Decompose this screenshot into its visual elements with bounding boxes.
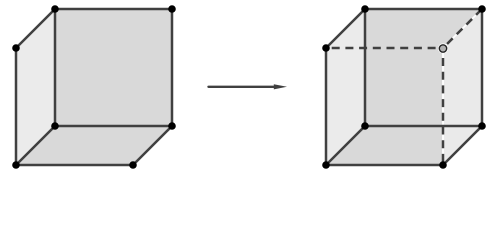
- left cube: edge B-F (front-right vertical): [171, 9, 174, 126]
- right cube: hidden edge H-B (dashed): [443, 9, 482, 48]
- left cube: edge A-B (top): [55, 8, 172, 11]
- right cube: edge A-B (top): [365, 8, 482, 11]
- right cube: hidden vertex H (gray point): [439, 45, 446, 52]
- right cube: edge A-C (top-left depth): [326, 9, 365, 48]
- right cube: right face overlay (lighter, revealed by hidden edges): [443, 9, 482, 165]
- left cube: bottom face: [16, 126, 172, 165]
- left cube: vertex B: [168, 5, 176, 13]
- right cube: edge B-F (front-right vertical): [481, 9, 484, 126]
- left cube: edge D-G (back bottom): [16, 164, 133, 167]
- left cube: vertex A: [51, 5, 59, 13]
- left cube: vertex D: [12, 161, 20, 169]
- right cube: edge C-D (back-left vertical): [325, 48, 328, 165]
- left cube: vertex F: [168, 122, 176, 130]
- arrow shaft: [209, 86, 279, 88]
- left cube: edge A-C (top-left depth): [16, 9, 55, 48]
- right cube: bottom face: [326, 126, 482, 165]
- right cube: front face: [365, 9, 482, 126]
- left cube: left face: [16, 9, 55, 165]
- left cube: vertex E: [51, 122, 59, 130]
- left cube: edge G-F (bottom-right depth): [133, 126, 172, 165]
- right cube: edge E-F (front bottom): [365, 125, 482, 128]
- right cube: edge A-E (front-left vertical): [364, 9, 367, 126]
- left cube: edge E-F (front bottom): [55, 125, 172, 128]
- left cube: edge A-E (front-left vertical): [54, 9, 57, 126]
- right cube: white seam under hidden edge H-G: [442, 48, 444, 165]
- right cube: hidden edge C-H (dashed): [326, 47, 443, 50]
- left cube: vertex G: [129, 161, 137, 169]
- arrow head: [274, 84, 287, 89]
- right cube: vertex E: [361, 122, 369, 130]
- left cube: vertex C: [12, 44, 20, 52]
- right cube: hidden edge H-G (dashed): [442, 48, 445, 165]
- left cube: front face: [55, 9, 172, 126]
- right cube: white seam under hidden edge H-B: [443, 9, 482, 48]
- right cube: left face: [326, 9, 365, 165]
- right cube: edge D-E (bottom-left depth): [326, 126, 365, 165]
- right cube: edge G-F (bottom-right depth): [443, 126, 482, 165]
- left cube: edge D-E (bottom-left depth): [16, 126, 55, 165]
- right cube: vertex B: [478, 5, 486, 13]
- right cube: vertex A: [361, 5, 369, 13]
- right cube: hidden vertex H white halo: [438, 43, 448, 53]
- right cube: vertex F: [478, 122, 486, 130]
- right cube: vertex G: [439, 161, 447, 169]
- left cube: edge C-D (back-left vertical): [15, 48, 18, 165]
- right cube: vertex C: [322, 44, 330, 52]
- right cube: edge D-G (back bottom): [326, 164, 443, 167]
- right cube: vertex D: [322, 161, 330, 169]
